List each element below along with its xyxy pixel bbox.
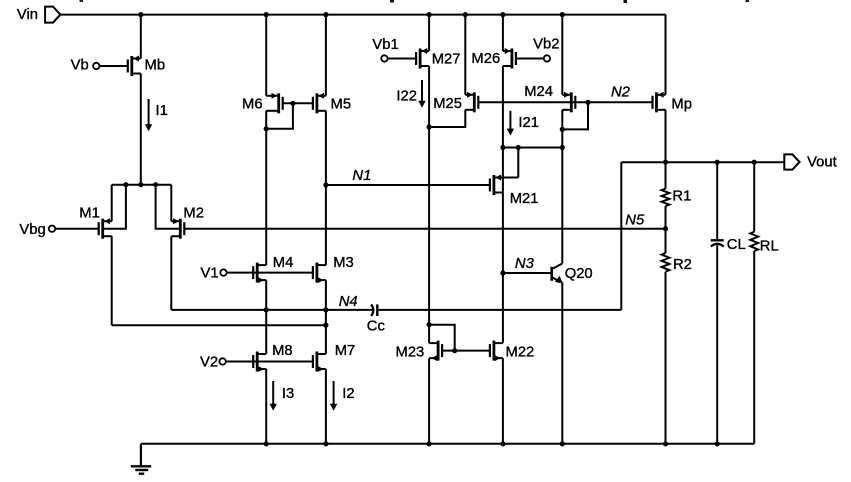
terminal V2 — [219, 358, 225, 364]
node dot rail-Mb — [138, 12, 143, 17]
wire M22 drain column — [502, 273, 504, 343]
top edge mark 4 — [746, 0, 750, 2]
top edge mark 3 — [624, 0, 628, 3]
svg-text:Mp: Mp — [671, 97, 692, 113]
wire R2 to ground — [665, 272, 667, 444]
capacitor Cc — [371, 304, 373, 316]
node dot rail-M27 — [427, 12, 432, 17]
wire M2 drain drop — [170, 236, 172, 310]
transistor M2 — [171, 218, 184, 239]
wire M26 source — [502, 15, 504, 51]
wire M21 source riser — [517, 148, 519, 178]
svg-text:N3: N3 — [515, 256, 535, 272]
wire CL to ground — [716, 244, 718, 444]
wire M23 drain riser — [428, 325, 430, 343]
wire M1 bulk tie — [103, 185, 126, 229]
transistor Mb — [128, 56, 141, 77]
svg-text:Mb: Mb — [145, 57, 166, 73]
node dot n147 mid — [516, 145, 521, 150]
node dot M23 diode — [427, 322, 432, 327]
wire Mp drain — [665, 110, 667, 162]
wire M7 source drop — [325, 369, 327, 444]
node dot rail-M5 — [323, 12, 328, 17]
wire Vb1 to M27 gate — [388, 58, 417, 60]
wire M8 source drop — [265, 369, 267, 444]
wire out to RL — [753, 162, 755, 232]
node dot rail-M25 — [463, 12, 468, 17]
transistor M4 — [253, 263, 266, 284]
wire Vbg to M1 gate — [55, 228, 98, 230]
svg-text:RL: RL — [760, 238, 779, 254]
capacitor CL — [711, 239, 724, 241]
svg-text:I3: I3 — [282, 386, 294, 402]
svg-text:N5: N5 — [625, 212, 645, 228]
svg-text:Cc: Cc — [367, 318, 386, 334]
node dot M6 gate tie — [290, 101, 295, 106]
svg-text:M1: M1 — [79, 206, 100, 222]
svg-text:Vb2: Vb2 — [533, 37, 559, 53]
svg-text:Vout: Vout — [807, 155, 837, 171]
node dot rail-M6 — [264, 12, 269, 17]
wire M3col mid — [325, 310, 327, 354]
terminal Vb1 — [381, 55, 387, 61]
node dot N5-R — [663, 226, 668, 231]
node dot out-Mp — [663, 160, 668, 165]
node dot gnd-R2 — [663, 441, 668, 446]
node dot n147 left — [500, 145, 505, 150]
wire M5 source — [325, 15, 327, 96]
wire Mb source to tail — [140, 74, 142, 185]
transistor M27 — [416, 48, 429, 69]
wire M24 diode link — [562, 102, 588, 129]
node dot rail-M26 — [500, 12, 505, 17]
node dot N1 — [323, 182, 328, 187]
svg-text:I1: I1 — [156, 103, 168, 119]
svg-text:Vbg: Vbg — [19, 222, 45, 238]
transistor Q20 — [550, 267, 553, 281]
resistor RL — [750, 232, 758, 251]
wire M3 source drop — [325, 280, 327, 310]
transistor M6 — [266, 93, 283, 114]
svg-text:N4: N4 — [339, 294, 358, 310]
terminal Vb2 — [544, 55, 550, 61]
node dot gnd-CL — [715, 441, 720, 446]
svg-text:M22: M22 — [506, 344, 535, 360]
wire M2 bulk tie — [156, 185, 181, 229]
svg-text:Vb1: Vb1 — [372, 37, 398, 53]
wire node N5 — [184, 228, 665, 230]
node dot tail-Mb — [138, 182, 143, 187]
node dot M27 drain — [427, 124, 432, 129]
wire M4col mid — [265, 310, 267, 354]
wire R1 to N5 — [665, 206, 667, 229]
svg-text:M7: M7 — [335, 343, 356, 359]
wire node N1 — [326, 184, 490, 186]
wire node N4 horizontal — [171, 309, 373, 311]
wire M6 column down — [265, 129, 267, 265]
wire M6 source — [265, 15, 267, 96]
wire Mb drain — [140, 15, 142, 59]
node dot out-RL — [752, 160, 757, 165]
transistor M3 — [313, 263, 326, 284]
ground — [140, 444, 142, 466]
svg-text:Vb: Vb — [71, 58, 89, 74]
node dot out-CL — [715, 160, 720, 165]
wire tail horizontal — [112, 184, 172, 186]
wire ground rail — [141, 443, 754, 445]
svg-text:M3: M3 — [333, 255, 354, 271]
svg-text:R1: R1 — [672, 189, 691, 205]
wire M24 drain — [561, 110, 563, 148]
wire M27 drain — [428, 66, 430, 127]
wire N3 to Q20 base — [503, 272, 551, 274]
current arrow I2 — [333, 381, 335, 405]
wire M1 drain horizontal — [112, 324, 326, 326]
wire Q20 collector — [561, 148, 563, 264]
node dot gnd-M23 — [427, 441, 432, 446]
svg-text:I2: I2 — [342, 386, 354, 402]
node dot rail-M24 — [560, 12, 565, 17]
wire M23-M22 gate — [442, 350, 490, 352]
resistor R2 — [665, 229, 667, 253]
svg-text:Vin: Vin — [17, 7, 38, 23]
wire M27 source — [428, 15, 430, 51]
svg-text:I21: I21 — [518, 115, 539, 131]
wire M6 drain — [265, 111, 267, 129]
node dot tail-M1bulk — [123, 182, 128, 187]
svg-text:M6: M6 — [242, 97, 263, 113]
wire M2 source riser — [170, 185, 172, 222]
current arrow I1 — [148, 99, 150, 125]
current arrow I22 — [421, 80, 423, 102]
wire M5 drain column — [325, 111, 327, 265]
wire M4 source drop — [265, 280, 267, 310]
transistor M23 — [429, 341, 442, 362]
node dot gnd-M7 — [323, 441, 328, 446]
transistor M22 — [490, 341, 503, 362]
wire M1 source riser — [111, 185, 113, 222]
svg-text:M25: M25 — [433, 96, 462, 112]
svg-text:I22: I22 — [396, 88, 417, 104]
svg-text:V2: V2 — [200, 355, 218, 371]
wire V2 to gates — [226, 361, 313, 363]
input terminal Vin — [45, 7, 60, 23]
node dot N4-M3col — [323, 307, 328, 312]
svg-text:M8: M8 — [272, 343, 293, 359]
node dot N2 — [585, 100, 590, 105]
current arrow I21 — [509, 111, 511, 130]
transistor M24 — [562, 92, 575, 113]
wire M6 diode link — [266, 103, 293, 129]
wire link riser — [620, 162, 622, 310]
wire M26-M21-M24 node — [503, 147, 562, 149]
wire Q20 emitter — [561, 283, 563, 444]
node dot N4-M4col — [264, 307, 269, 312]
transistor M21 — [490, 175, 518, 196]
wire Mp drain to R1 — [665, 162, 667, 189]
wire Cc to output link — [377, 309, 621, 311]
svg-text:M4: M4 — [273, 255, 294, 271]
svg-text:N2: N2 — [611, 85, 631, 101]
wire M21 drain column — [502, 148, 504, 274]
svg-text:M2: M2 — [183, 206, 204, 222]
node dot n147 right — [560, 145, 565, 150]
node dot M1drain-N4col — [323, 323, 328, 328]
wire RL to ground — [753, 251, 755, 444]
current arrow I3 — [272, 381, 274, 405]
wire M1 drain drop — [111, 236, 113, 325]
wire M6-M5 gate — [283, 102, 313, 104]
transistor M26 — [503, 48, 516, 69]
node dot M23 gate tie — [452, 348, 457, 353]
terminal Vb — [93, 63, 99, 69]
node dot M6 diode — [264, 126, 269, 131]
svg-text:M27: M27 — [432, 52, 461, 68]
wire M23 diode link — [429, 325, 455, 351]
node dot gnd-M8 — [264, 441, 269, 446]
node dot gnd-M22 — [500, 441, 505, 446]
wire V1 to gates — [227, 272, 313, 274]
svg-text:M5: M5 — [331, 97, 352, 113]
transistor M7 — [313, 352, 326, 373]
wire M24 source — [561, 15, 563, 95]
svg-text:CL: CL — [727, 237, 746, 253]
node dot gnd-Q20 — [560, 441, 565, 446]
terminal Vbg — [49, 226, 55, 232]
node dot tail-M2bulk — [153, 182, 158, 187]
svg-text:N1: N1 — [352, 168, 371, 184]
svg-text:M26: M26 — [471, 51, 500, 67]
transistor Mp — [653, 92, 666, 113]
svg-text:M23: M23 — [396, 344, 425, 360]
resistor R1 — [662, 189, 670, 206]
wire Vb to Mb gate — [100, 65, 128, 67]
wire M25 source — [464, 15, 466, 95]
svg-text:M24: M24 — [524, 84, 553, 100]
svg-text:M21: M21 — [510, 191, 539, 207]
node dot N3 — [500, 270, 505, 275]
wire M22 source drop — [502, 358, 504, 444]
wire Vb2 to M26 gate — [516, 58, 544, 60]
node dot M24 diode — [560, 127, 565, 132]
transistor M5 — [313, 93, 326, 114]
terminal V1 — [220, 269, 226, 275]
svg-text:V1: V1 — [201, 266, 219, 282]
top edge mark 1 — [80, 0, 84, 2]
svg-text:Q20: Q20 — [565, 266, 593, 282]
wire rail corner to Mp — [665, 15, 667, 95]
transistor M1 — [99, 218, 112, 239]
svg-text:R2: R2 — [673, 257, 692, 273]
transistor M25 — [465, 92, 478, 113]
transistor M8 — [253, 352, 266, 373]
wire Vin top rail — [60, 14, 665, 16]
wire M25 drain link — [429, 110, 465, 127]
wire out to CL — [716, 162, 718, 240]
output terminal Vout — [784, 154, 799, 169]
wire output node — [621, 161, 784, 163]
top edge mark 2 — [390, 0, 394, 3]
wire M23 source drop — [428, 358, 430, 444]
wire M27 column down — [428, 127, 430, 325]
wire M25-M24-Mp gate — [478, 101, 652, 103]
wire M26 drain — [502, 66, 504, 148]
